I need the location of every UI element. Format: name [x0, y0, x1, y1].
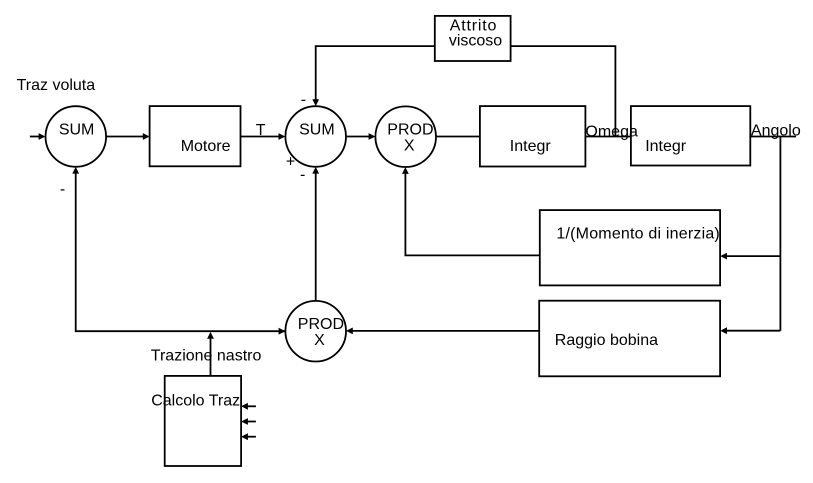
block Integr2: [631, 106, 750, 165]
wire Attrito viscoso output to SUM2 top: [316, 46, 435, 100]
block Attrito viscoso: [435, 16, 511, 61]
input stub 3 into Calcolo Traz right: [248, 436, 256, 438]
svg-text:Motore: Motore: [181, 138, 231, 155]
multiplier PROD1: [375, 106, 436, 167]
wire PROD2 output up to SUM2 bottom: [315, 173, 317, 301]
summing junction SUM2: [285, 106, 346, 167]
svg-text:+: +: [286, 153, 295, 170]
wire Integr2 output to right with bend down: [750, 136, 796, 138]
svg-text:Calcolo Traz: Calcolo Traz: [151, 392, 240, 409]
svg-text:T: T: [256, 122, 266, 139]
block Raggio bobina: [539, 301, 720, 377]
svg-text:Integr: Integr: [645, 138, 687, 155]
summing junction SUM1: [46, 106, 107, 167]
svg-text:Raggio bobina: Raggio bobina: [555, 332, 658, 349]
wire branch into Raggio bobina: [727, 330, 781, 332]
wire Omega tap to Attrito viscoso input: [511, 46, 616, 136]
wire PROD1 to Integr1: [436, 136, 480, 138]
svg-text:PROD: PROD: [387, 121, 433, 138]
svg-text:viscoso: viscoso: [449, 33, 502, 50]
wire Raggio bobina output to PROD2 right: [352, 330, 539, 332]
svg-text:SUM: SUM: [59, 121, 95, 138]
svg-text:Trazione nastro: Trazione nastro: [151, 348, 262, 365]
block 1/(Momento di inerzia): [540, 210, 720, 285]
wire SUM2 to PROD1: [346, 136, 369, 138]
block Calcolo Traz: [165, 376, 241, 466]
block Integr1: [480, 106, 586, 166]
wire Momento output to PROD1 bottom: [405, 174, 539, 256]
arrow into PROD2 left: [279, 328, 286, 335]
svg-text:1/(Momento di inerzia): 1/(Momento di inerzia): [556, 225, 720, 242]
input stub 2 into Calcolo Traz right: [248, 421, 256, 423]
wire Integr1 to Integr2: [585, 136, 631, 138]
svg-text:X: X: [404, 137, 415, 154]
wire trazione feedback: junction to SUM1 bottom: [76, 173, 285, 331]
block Motore: [150, 106, 241, 166]
wire input stub into SUM1: [30, 136, 39, 138]
svg-text:-: -: [300, 166, 305, 183]
svg-text:Integr: Integr: [510, 138, 552, 155]
wire Calcolo Traz output up to junction: [210, 339, 212, 376]
svg-text:SUM: SUM: [299, 121, 335, 138]
wire branch into Momento di inerzia: [727, 255, 781, 257]
svg-text:Traz voluta: Traz voluta: [17, 77, 96, 94]
svg-text:PROD: PROD: [298, 316, 344, 333]
wire SUM1 to Motore: [106, 136, 143, 138]
svg-text:Omega: Omega: [585, 123, 638, 140]
svg-text:-: -: [60, 181, 65, 198]
input stub 1 into Calcolo Traz right: [248, 405, 256, 407]
wire Motore to SUM2, label T: [241, 136, 280, 138]
svg-text:X: X: [314, 332, 325, 349]
svg-text:-: -: [301, 91, 306, 108]
multiplier PROD2: [285, 301, 346, 362]
